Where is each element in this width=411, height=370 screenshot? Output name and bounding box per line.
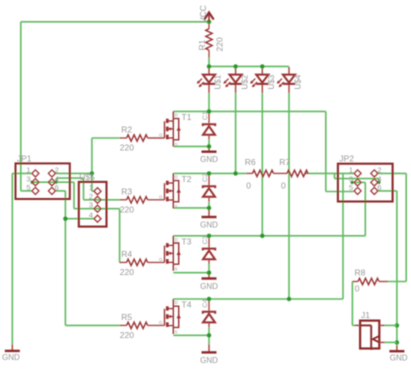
svg-text:0: 0 bbox=[246, 180, 251, 190]
svg-text:R7: R7 bbox=[279, 157, 290, 167]
svg-text:0: 0 bbox=[355, 283, 360, 293]
svg-text:JP1: JP1 bbox=[17, 153, 32, 163]
svg-text:2: 2 bbox=[89, 192, 93, 201]
svg-text:1: 1 bbox=[349, 166, 353, 175]
svg-text:R4: R4 bbox=[121, 249, 132, 259]
svg-text:R3: R3 bbox=[121, 187, 132, 197]
svg-text:VCC: VCC bbox=[198, 5, 208, 23]
svg-text:4: 4 bbox=[89, 211, 93, 220]
svg-text:T3: T3 bbox=[182, 237, 192, 247]
svg-text:GND: GND bbox=[200, 155, 218, 164]
svg-text:4: 4 bbox=[55, 174, 59, 183]
svg-text:R2: R2 bbox=[121, 125, 132, 135]
svg-text:GND: GND bbox=[200, 220, 218, 229]
svg-text:S: S bbox=[175, 204, 178, 209]
svg-text:S: S bbox=[175, 142, 178, 147]
svg-text:R5: R5 bbox=[121, 312, 132, 322]
svg-text:U$1: U$1 bbox=[214, 74, 223, 89]
svg-text:GND: GND bbox=[200, 282, 218, 291]
svg-text:R6: R6 bbox=[245, 157, 256, 167]
svg-text:GND: GND bbox=[390, 353, 408, 362]
svg-text:U$3: U$3 bbox=[267, 74, 276, 89]
svg-text:T4: T4 bbox=[182, 300, 192, 310]
svg-text:G: G bbox=[159, 320, 163, 325]
svg-text:J1: J1 bbox=[361, 310, 370, 320]
svg-text:R1: R1 bbox=[197, 39, 207, 50]
svg-text:220: 220 bbox=[120, 143, 134, 153]
svg-text:220: 220 bbox=[120, 205, 134, 215]
svg-text:5: 5 bbox=[26, 183, 30, 192]
svg-text:5: 5 bbox=[349, 183, 353, 192]
svg-text:3: 3 bbox=[89, 201, 93, 210]
svg-text:G: G bbox=[159, 257, 163, 262]
svg-text:220: 220 bbox=[120, 330, 134, 340]
svg-text:0: 0 bbox=[281, 180, 286, 190]
svg-text:T1: T1 bbox=[182, 112, 192, 122]
svg-text:G: G bbox=[159, 194, 163, 199]
svg-text:U$2: U$2 bbox=[240, 74, 249, 89]
svg-text:220: 220 bbox=[215, 37, 225, 51]
svg-text:T2: T2 bbox=[182, 174, 192, 184]
svg-text:R8: R8 bbox=[355, 268, 366, 278]
svg-text:2: 2 bbox=[55, 166, 59, 175]
svg-text:1: 1 bbox=[26, 166, 30, 175]
svg-text:JP2: JP2 bbox=[339, 154, 354, 164]
svg-text:GND: GND bbox=[2, 353, 20, 362]
svg-text:GND: GND bbox=[200, 356, 218, 365]
svg-text:U$4: U$4 bbox=[294, 74, 303, 89]
svg-text:S: S bbox=[175, 266, 178, 271]
svg-text:6: 6 bbox=[55, 183, 59, 192]
svg-text:220: 220 bbox=[120, 267, 134, 277]
svg-text:G: G bbox=[159, 133, 163, 138]
svg-text:U$5: U$5 bbox=[79, 172, 95, 182]
svg-text:S: S bbox=[175, 330, 178, 335]
svg-text:6: 6 bbox=[377, 183, 381, 192]
svg-text:2: 2 bbox=[377, 166, 381, 175]
svg-text:3: 3 bbox=[26, 174, 30, 183]
